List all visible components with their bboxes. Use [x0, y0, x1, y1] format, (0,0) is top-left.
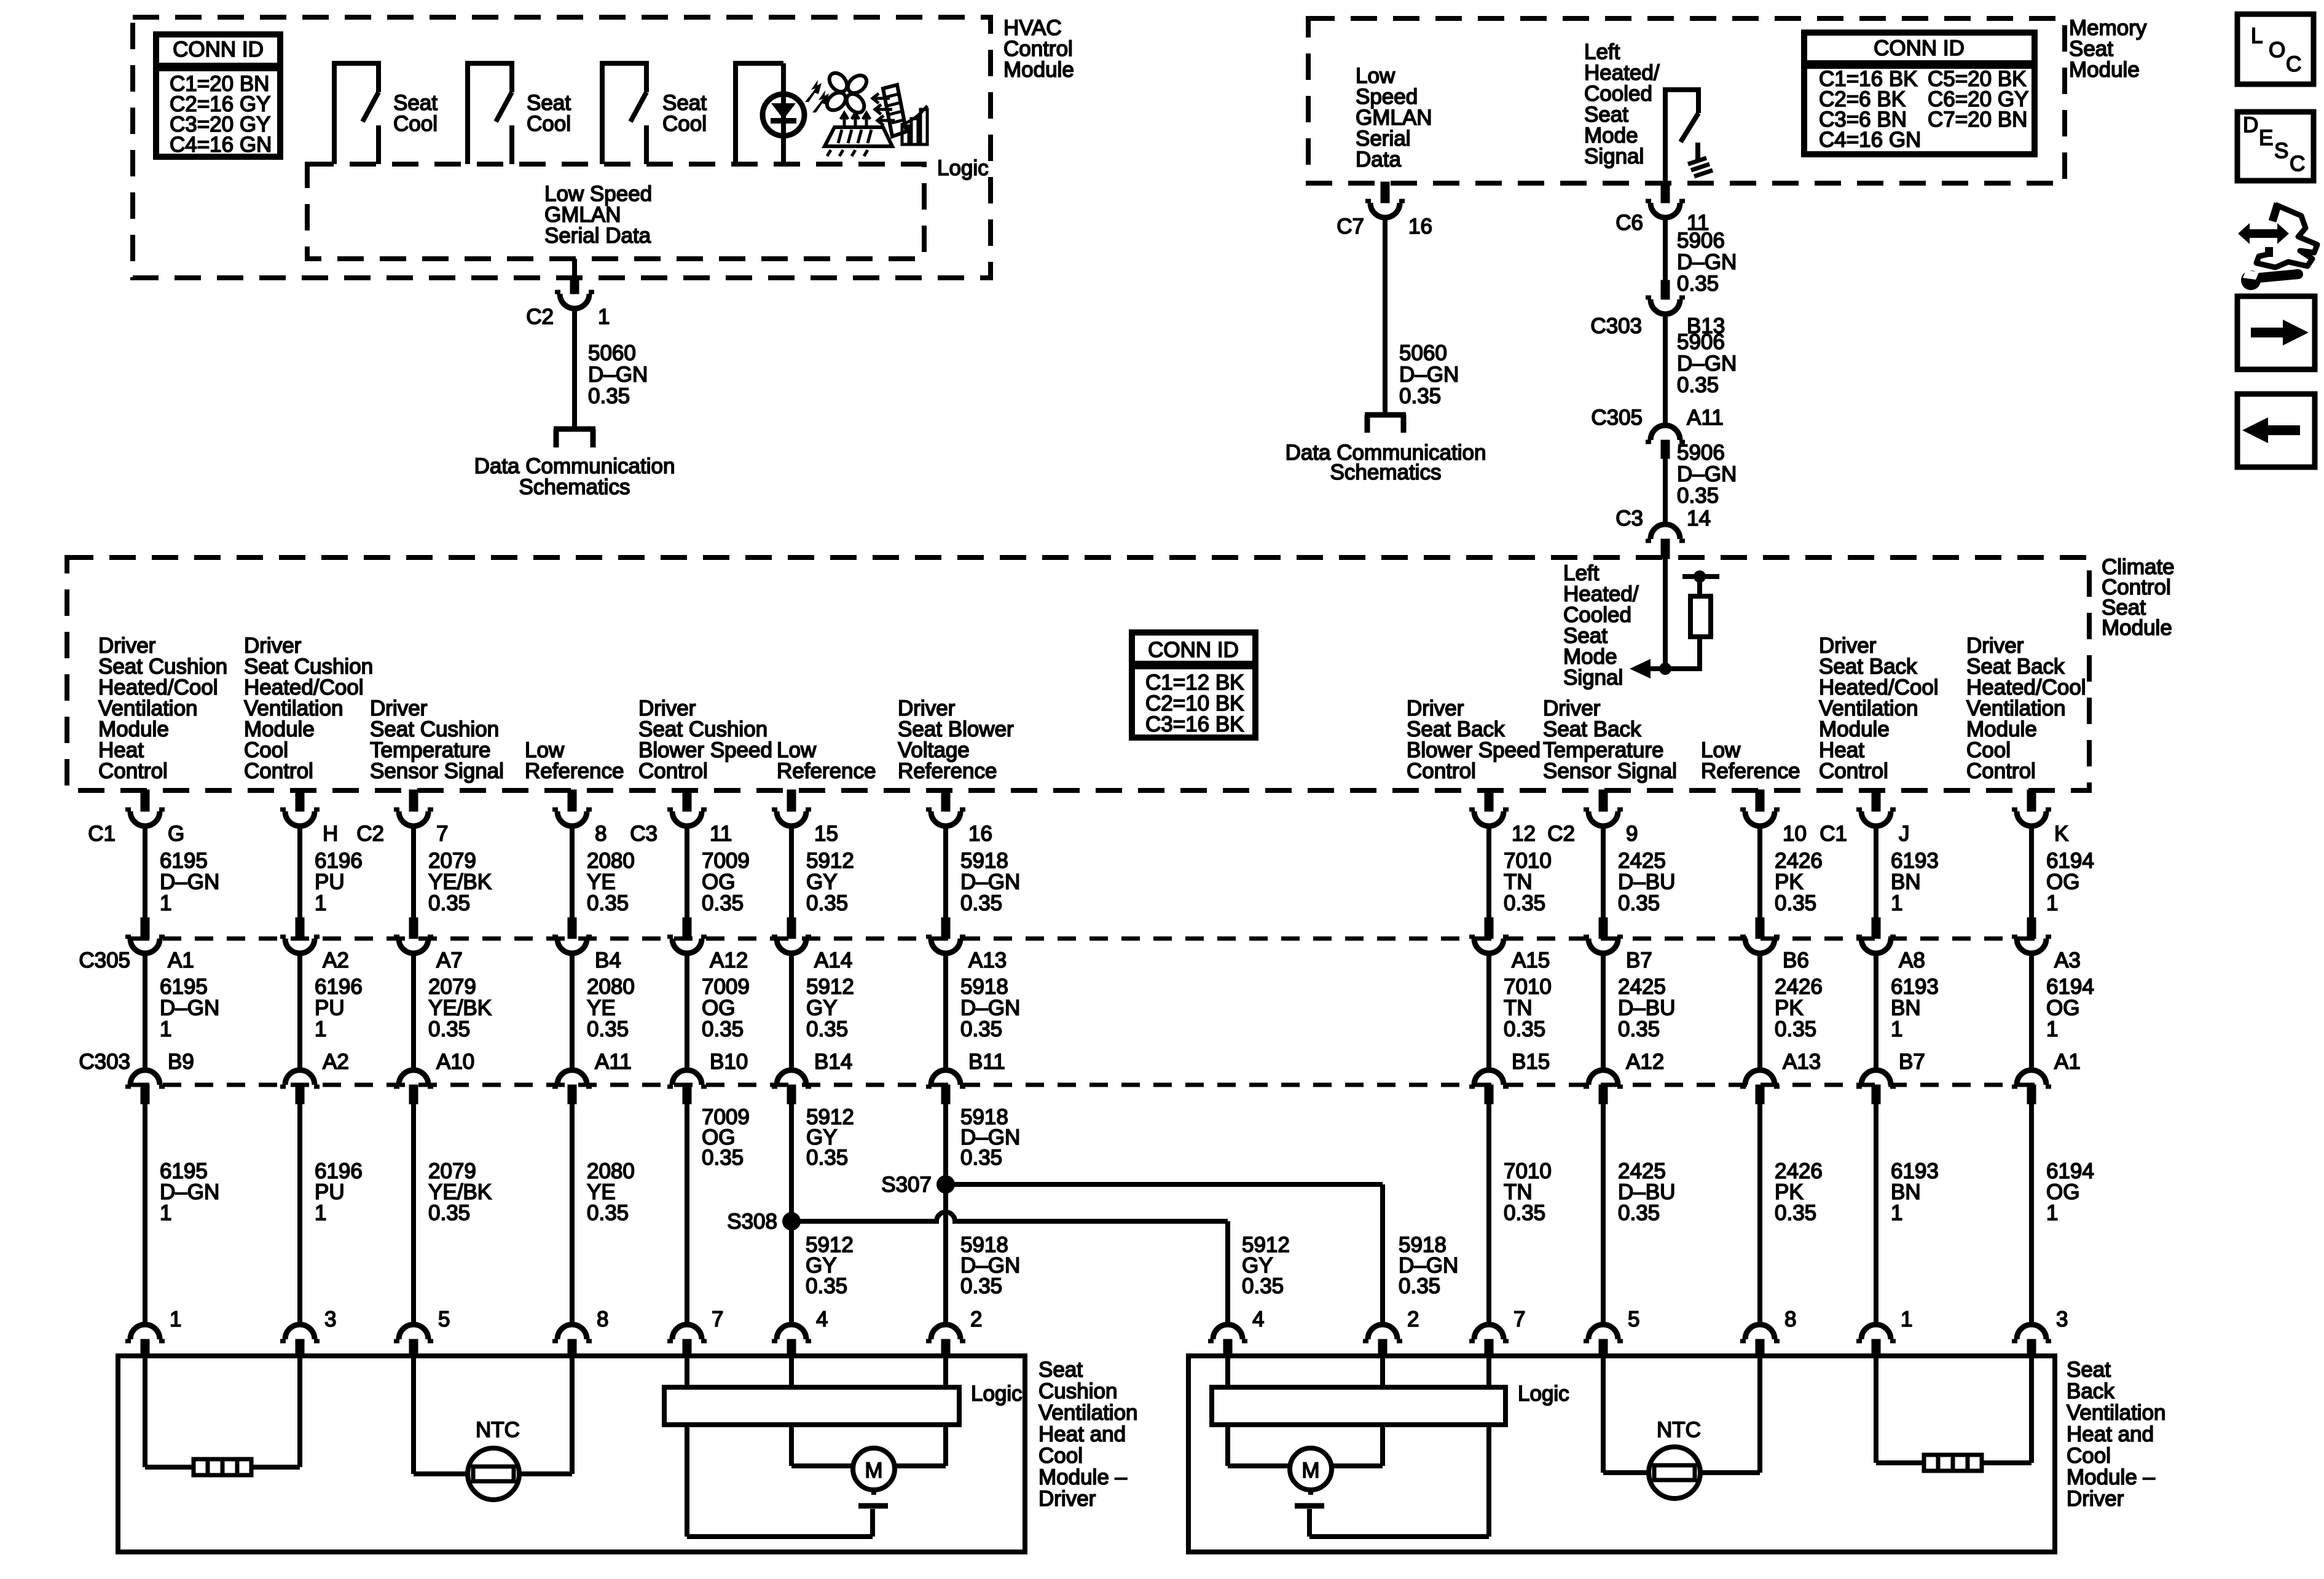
svg-text:M: M: [865, 1459, 882, 1483]
svg-text:14: 14: [1687, 506, 1711, 530]
C305 inline connector row line: [131, 937, 2046, 941]
svg-text:Driver: Driver: [2067, 1487, 2124, 1511]
svg-text:C3: C3: [630, 822, 658, 846]
svg-text:B7: B7: [1626, 948, 1652, 972]
svg-text:D–BU: D–BU: [1618, 870, 1675, 894]
svg-text:Schematics: Schematics: [1330, 460, 1442, 484]
svg-text:E: E: [2259, 126, 2273, 150]
svg-text:1: 1: [1891, 1017, 1902, 1041]
svg-text:12: 12: [1512, 822, 1536, 846]
svg-text:CONN ID: CONN ID: [1148, 638, 1239, 662]
svg-text:CONN ID: CONN ID: [1874, 36, 1965, 60]
svg-text:7009: 7009: [702, 975, 750, 999]
DESC nav box: [2237, 112, 2314, 181]
svg-text:2079: 2079: [428, 975, 476, 999]
svg-text:A13: A13: [1783, 1050, 1821, 1074]
svg-text:Ventilation: Ventilation: [1038, 1401, 1138, 1425]
svg-text:Control: Control: [98, 759, 168, 783]
mode switch (memory): [1665, 90, 1698, 183]
svg-text:0.35: 0.35: [1677, 484, 1719, 508]
cooled seat icon (fan + seat): [843, 90, 868, 116]
svg-text:6194: 6194: [2046, 975, 2094, 999]
svg-text:0.35: 0.35: [1775, 891, 1816, 915]
svg-text:6194: 6194: [2046, 849, 2094, 873]
svg-text:0.35: 0.35: [960, 891, 1002, 915]
svg-text:0.35: 0.35: [806, 1274, 847, 1298]
svg-text:Back: Back: [2067, 1379, 2114, 1403]
svg-text:Module –: Module –: [1038, 1465, 1128, 1489]
svg-text:Logic: Logic: [1518, 1382, 1569, 1406]
svg-text:0.35: 0.35: [806, 1017, 848, 1041]
svg-text:C305: C305: [1591, 406, 1643, 430]
svg-text:7010: 7010: [1504, 849, 1552, 873]
wire 5906 seg1: [1663, 216, 1668, 282]
svg-text:1: 1: [170, 1307, 181, 1331]
svg-text:YE/BK: YE/BK: [428, 996, 492, 1020]
svg-text:C303: C303: [1590, 314, 1642, 338]
indicator branch with LED: [736, 63, 783, 164]
node junction: [1638, 666, 1702, 671]
svg-text:A2: A2: [323, 1050, 349, 1074]
svg-text:O: O: [2269, 38, 2285, 62]
seat cool switch 3: [602, 63, 646, 164]
svg-text:Module: Module: [2102, 616, 2172, 640]
svg-text:0.35: 0.35: [960, 1274, 1002, 1298]
svg-text:A1: A1: [2054, 1050, 2081, 1074]
CONN ID table (memory): [1804, 33, 2035, 154]
wire 2079 chain x=673: [409, 790, 418, 811]
Logic box (left module): [664, 1387, 959, 1425]
svg-text:C2: C2: [526, 305, 554, 329]
svg-text:Logic: Logic: [937, 156, 989, 180]
svg-text:D–GN: D–GN: [160, 996, 219, 1020]
svg-text:Control: Control: [638, 759, 708, 783]
svg-text:PK: PK: [1775, 870, 1804, 894]
wire 6195 chain x=236: [141, 790, 149, 811]
blower motor M (right): [1225, 1425, 1230, 1466]
chassis ground (memory): [1695, 143, 1700, 160]
svg-text:5060: 5060: [1399, 341, 1447, 365]
svg-text:S: S: [2274, 139, 2288, 163]
blower motor M (left): [789, 1425, 794, 1466]
svg-text:A2: A2: [323, 948, 349, 972]
pull-up resistor R1: [1682, 574, 1719, 579]
svg-text:A12: A12: [1626, 1050, 1664, 1074]
LOC nav box: [2237, 14, 2314, 84]
svg-text:Control: Control: [244, 759, 313, 783]
svg-text:D–GN: D–GN: [1677, 250, 1737, 274]
svg-text:Control: Control: [1407, 759, 1476, 783]
wire from GMLAN box: [572, 259, 577, 278]
Seat Back Ventilation Heat and Cool Module - Driver box: [1188, 1356, 2055, 1552]
svg-text:C4=16 GN: C4=16 GN: [1819, 128, 1921, 152]
svg-text:2080: 2080: [587, 975, 635, 999]
svg-text:2079: 2079: [428, 849, 476, 873]
svg-text:A1: A1: [168, 948, 194, 972]
svg-text:A8: A8: [1899, 948, 1925, 972]
svg-text:Heat and: Heat and: [2067, 1422, 2154, 1446]
svg-text:Logic: Logic: [971, 1382, 1023, 1406]
svg-text:0.35: 0.35: [1618, 1201, 1660, 1225]
svg-text:B11: B11: [968, 1050, 1005, 1074]
svg-text:C4=16 GN: C4=16 GN: [170, 133, 272, 157]
svg-text:B14: B14: [814, 1050, 852, 1074]
svg-text:1: 1: [160, 1017, 171, 1041]
svg-text:0.35: 0.35: [1399, 384, 1441, 408]
svg-text:J: J: [1899, 822, 1910, 846]
svg-text:0.35: 0.35: [587, 891, 629, 915]
svg-text:6195: 6195: [160, 849, 208, 873]
svg-text:5: 5: [1628, 1307, 1639, 1331]
svg-text:5: 5: [438, 1307, 450, 1331]
svg-text:C7=20 BN: C7=20 BN: [1928, 108, 2027, 132]
svg-text:11: 11: [710, 822, 732, 846]
svg-text:OG: OG: [702, 870, 735, 894]
inner Low Speed GMLAN Serial Data dashed box: [307, 164, 924, 259]
svg-text:C: C: [2290, 152, 2305, 176]
svg-text:A10: A10: [436, 1050, 474, 1074]
svg-text:B15: B15: [1512, 1050, 1550, 1074]
svg-text:9: 9: [1626, 822, 1638, 846]
svg-text:1: 1: [160, 1201, 171, 1225]
svg-text:OG: OG: [702, 996, 735, 1020]
back arrow box: [2237, 394, 2315, 467]
svg-text:Module: Module: [1003, 58, 1074, 82]
svg-text:Schematics: Schematics: [519, 475, 630, 499]
svg-text:B9: B9: [168, 1050, 194, 1074]
svg-text:6193: 6193: [1891, 849, 1939, 873]
svg-text:D–GN: D–GN: [960, 870, 1020, 894]
svg-text:A7: A7: [436, 948, 463, 972]
svg-text:7010: 7010: [1504, 975, 1552, 999]
svg-text:0.35: 0.35: [702, 1146, 744, 1170]
svg-text:5918: 5918: [960, 975, 1008, 999]
svg-text:0.35: 0.35: [960, 1146, 1002, 1170]
svg-text:0.35: 0.35: [428, 891, 470, 915]
wire 2426 chain x=2864: [1756, 790, 1764, 811]
svg-text:Sensor Signal: Sensor Signal: [1543, 759, 1677, 783]
svg-text:GY: GY: [806, 870, 838, 894]
seat cool switch 2: [468, 63, 512, 164]
svg-text:L: L: [2251, 24, 2263, 48]
svg-text:1: 1: [1891, 891, 1902, 915]
svg-text:2425: 2425: [1618, 975, 1666, 999]
svg-text:C7: C7: [1337, 215, 1364, 238]
svg-text:0.35: 0.35: [702, 891, 744, 915]
svg-text:0.35: 0.35: [588, 384, 630, 408]
svg-text:5060: 5060: [588, 341, 636, 365]
svg-text:3: 3: [2056, 1307, 2068, 1331]
wire 2080 chain x=931: [568, 790, 576, 811]
wire 7010 chain x=2423: [1485, 790, 1493, 811]
svg-text:8: 8: [1784, 1307, 1796, 1331]
svg-text:0.35: 0.35: [1242, 1274, 1284, 1298]
svg-text:1: 1: [2046, 891, 2058, 915]
svg-text:A13: A13: [968, 948, 1007, 972]
Logic box (right module): [1212, 1387, 1505, 1425]
svg-text:1: 1: [1901, 1307, 1912, 1331]
Climate Control Seat Module box: [67, 557, 2089, 790]
svg-text:4: 4: [816, 1307, 828, 1331]
svg-text:6196: 6196: [315, 975, 363, 999]
svg-text:NTC: NTC: [1657, 1418, 1701, 1442]
svg-text:OG: OG: [2046, 996, 2079, 1020]
svg-text:2426: 2426: [1775, 975, 1823, 999]
svg-text:C1: C1: [88, 822, 116, 846]
svg-text:G: G: [168, 822, 184, 846]
wire 5906 seg2: [1663, 313, 1668, 425]
svg-text:10: 10: [1783, 822, 1807, 846]
svg-text:5918: 5918: [960, 849, 1008, 873]
wire 5918 chain x=1539: [941, 790, 950, 811]
svg-text:Cool: Cool: [1038, 1444, 1083, 1468]
splice S308: [782, 1212, 801, 1231]
svg-text:2: 2: [1407, 1307, 1419, 1331]
svg-text:C2: C2: [1547, 822, 1575, 846]
svg-text:1: 1: [2046, 1201, 2058, 1225]
svg-text:6196: 6196: [315, 849, 363, 873]
svg-text:Reference: Reference: [898, 759, 997, 783]
Seat Cushion Ventilation Heat and Cool Module - Driver box: [118, 1356, 1025, 1552]
svg-text:0.35: 0.35: [1677, 373, 1719, 397]
svg-text:PK: PK: [1775, 996, 1804, 1020]
svg-text:2080: 2080: [587, 849, 635, 873]
svg-text:D–GN: D–GN: [1399, 363, 1459, 387]
wire 5060 (memory): [1383, 216, 1388, 412]
svg-text:Seat: Seat: [1038, 1358, 1083, 1382]
svg-text:A11: A11: [1687, 406, 1724, 430]
svg-text:1: 1: [315, 1017, 326, 1041]
svg-text:Driver: Driver: [1038, 1487, 1096, 1511]
svg-text:CONN ID: CONN ID: [173, 37, 264, 61]
svg-text:B10: B10: [710, 1050, 748, 1074]
svg-text:D: D: [2243, 113, 2258, 137]
forward arrow box: [2237, 296, 2315, 369]
svg-text:1: 1: [160, 891, 171, 915]
svg-text:D–GN: D–GN: [1677, 462, 1737, 486]
svg-text:NTC: NTC: [476, 1418, 520, 1442]
svg-text:D–GN: D–GN: [960, 996, 1020, 1020]
wire 6194 chain x=3306: [2027, 790, 2036, 811]
svg-text:5906: 5906: [1677, 229, 1725, 253]
svg-text:D–GN: D–GN: [160, 870, 219, 894]
svg-text:1: 1: [598, 305, 610, 329]
svg-text:7009: 7009: [702, 849, 750, 873]
svg-text:0.35: 0.35: [1504, 1201, 1545, 1225]
motor ground return (left): [685, 1425, 689, 1537]
wire 5906 seg3: [1663, 459, 1668, 526]
HVAC Control Module box: [133, 17, 991, 278]
svg-text:C2: C2: [356, 822, 384, 846]
svg-text:16: 16: [1408, 215, 1432, 238]
svg-text:Serial Data: Serial Data: [544, 224, 651, 248]
svg-text:Cool: Cool: [527, 112, 571, 136]
svg-text:C: C: [2286, 52, 2301, 76]
svg-text:C305: C305: [79, 948, 130, 972]
svg-text:D–BU: D–BU: [1618, 996, 1675, 1020]
svg-text:GY: GY: [806, 996, 838, 1020]
wire 6193 chain x=3053: [1872, 790, 1880, 811]
svg-text:Cool: Cool: [393, 112, 438, 136]
svg-text:0.35: 0.35: [428, 1017, 470, 1041]
svg-text:1: 1: [315, 891, 326, 915]
svg-text:5906: 5906: [1677, 441, 1725, 465]
svg-text:0.35: 0.35: [1775, 1201, 1816, 1225]
svg-text:PU: PU: [315, 996, 345, 1020]
svg-text:A15: A15: [1512, 948, 1550, 972]
svg-text:YE: YE: [587, 996, 616, 1020]
svg-text:Cool: Cool: [2067, 1444, 2111, 1468]
svg-text:3: 3: [324, 1307, 336, 1331]
off-page bracket (Data Communication): [554, 427, 595, 432]
svg-text:2426: 2426: [1775, 849, 1823, 873]
svg-text:Ventilation: Ventilation: [2067, 1401, 2166, 1425]
svg-text:4: 4: [1252, 1307, 1264, 1331]
svg-text:15: 15: [814, 822, 838, 846]
svg-text:5912: 5912: [806, 849, 854, 873]
svg-text:Heat and: Heat and: [1038, 1422, 1126, 1446]
heater element (left): [143, 1356, 147, 1467]
svg-text:C1: C1: [1820, 822, 1847, 846]
svg-text:5906: 5906: [1677, 330, 1725, 354]
svg-text:M: M: [1301, 1459, 1319, 1483]
svg-text:1: 1: [1891, 1201, 1902, 1225]
connector C6 pin 11: [1661, 182, 1670, 203]
svg-text:D–GN: D–GN: [1677, 352, 1737, 376]
mode signal wire inside climate: [1663, 557, 1668, 669]
svg-text:Control: Control: [1819, 759, 1888, 783]
svg-text:0.35: 0.35: [1618, 1017, 1660, 1041]
wire 2425 chain x=2609: [1599, 790, 1608, 811]
signal arrow: [1630, 659, 1651, 679]
wire 5060: [572, 307, 577, 427]
Memory Seat Module box: [1308, 18, 2065, 183]
LED D1: [763, 94, 804, 136]
svg-text:C3: C3: [1615, 506, 1643, 530]
svg-text:OG: OG: [2046, 870, 2079, 894]
svg-text:Module: Module: [2069, 58, 2140, 82]
svg-text:8: 8: [597, 1307, 608, 1331]
svg-text:6193: 6193: [1891, 975, 1939, 999]
svg-text:A3: A3: [2054, 948, 2081, 972]
svg-text:7: 7: [436, 822, 448, 846]
svg-text:D–GN: D–GN: [588, 363, 648, 387]
svg-text:B6: B6: [1783, 948, 1809, 972]
svg-text:Reference: Reference: [777, 759, 876, 783]
svg-text:0.35: 0.35: [1775, 1017, 1816, 1041]
svg-text:2425: 2425: [1618, 849, 1666, 873]
CONN ID table (HVAC): [156, 34, 280, 157]
svg-text:1: 1: [315, 1201, 326, 1225]
svg-text:Seat: Seat: [2067, 1358, 2111, 1382]
wire 6196 chain x=488: [296, 790, 304, 811]
svg-text:0.35: 0.35: [806, 891, 848, 915]
svg-text:0.35: 0.35: [587, 1017, 629, 1041]
off-page bracket (Data Communication right): [1365, 412, 1406, 418]
svg-text:Sensor Signal: Sensor Signal: [370, 759, 504, 783]
wrench / repair icon: [2238, 223, 2289, 244]
wire 7009 chain x=1118: [683, 790, 691, 811]
svg-text:0.35: 0.35: [1618, 891, 1660, 915]
splice S307: [936, 1175, 955, 1194]
svg-text:A14: A14: [814, 948, 852, 972]
LED light arrows: [805, 80, 822, 102]
svg-text:H: H: [323, 822, 338, 846]
svg-text:1: 1: [2046, 1017, 2058, 1041]
svg-text:8: 8: [595, 822, 607, 846]
svg-text:Control: Control: [1966, 759, 2036, 783]
svg-text:B7: B7: [1899, 1050, 1925, 1074]
svg-text:5912: 5912: [806, 975, 854, 999]
connector C7 pin 16: [1381, 182, 1389, 203]
svg-text:7: 7: [712, 1307, 723, 1331]
seat cool switch 1: [334, 63, 379, 164]
svg-text:0.35: 0.35: [1504, 1017, 1545, 1041]
svg-text:YE/BK: YE/BK: [428, 870, 492, 894]
svg-text:Cool: Cool: [662, 112, 707, 136]
connector C2 pin 1: [570, 277, 579, 294]
svg-text:Signal: Signal: [1563, 666, 1623, 690]
svg-text:C3=16 BK: C3=16 BK: [1145, 712, 1244, 736]
svg-text:Cushion: Cushion: [1038, 1379, 1117, 1403]
svg-text:6195: 6195: [160, 975, 208, 999]
svg-text:0.35: 0.35: [1504, 891, 1545, 915]
svg-text:B4: B4: [595, 948, 621, 972]
svg-text:0.35: 0.35: [806, 1146, 848, 1170]
svg-text:Reference: Reference: [1701, 759, 1800, 783]
pins into logic (right): [1225, 1356, 1230, 1387]
svg-text:YE: YE: [587, 870, 616, 894]
svg-text:Signal: Signal: [1584, 144, 1644, 168]
svg-text:0.35: 0.35: [1399, 1274, 1440, 1298]
svg-text:7: 7: [1513, 1307, 1525, 1331]
svg-text:Reference: Reference: [525, 759, 624, 783]
svg-text:0.35: 0.35: [587, 1201, 629, 1225]
svg-text:0.35: 0.35: [1677, 272, 1719, 296]
svg-text:A11: A11: [595, 1050, 632, 1074]
svg-text:0.35: 0.35: [960, 1017, 1002, 1041]
svg-text:0.35: 0.35: [428, 1201, 470, 1225]
svg-text:TN: TN: [1504, 996, 1533, 1020]
svg-text:PU: PU: [315, 870, 345, 894]
heater element (right): [1874, 1356, 1878, 1463]
motor ground return (right): [1486, 1425, 1491, 1537]
svg-text:K: K: [2054, 822, 2068, 846]
svg-text:S308: S308: [727, 1210, 777, 1234]
svg-text:Data: Data: [1356, 148, 1401, 171]
svg-text:BN: BN: [1891, 870, 1921, 894]
svg-text:16: 16: [968, 822, 992, 846]
wire 5912 chain x=1288: [787, 790, 796, 811]
svg-text:0.35: 0.35: [702, 1017, 744, 1041]
svg-text:TN: TN: [1504, 870, 1533, 894]
svg-text:Module –: Module –: [2067, 1465, 2156, 1489]
svg-text:2: 2: [970, 1307, 982, 1331]
pins into logic: [685, 1356, 689, 1387]
CONN ID table (climate): [1132, 632, 1255, 738]
svg-text:C303: C303: [79, 1050, 130, 1074]
connector C303 B13: [1661, 280, 1670, 299]
C303 inline connector row line: [131, 1083, 2046, 1087]
svg-text:S307: S307: [881, 1173, 932, 1197]
svg-text:C6: C6: [1615, 211, 1643, 235]
svg-text:A12: A12: [710, 948, 748, 972]
svg-text:BN: BN: [1891, 996, 1921, 1020]
